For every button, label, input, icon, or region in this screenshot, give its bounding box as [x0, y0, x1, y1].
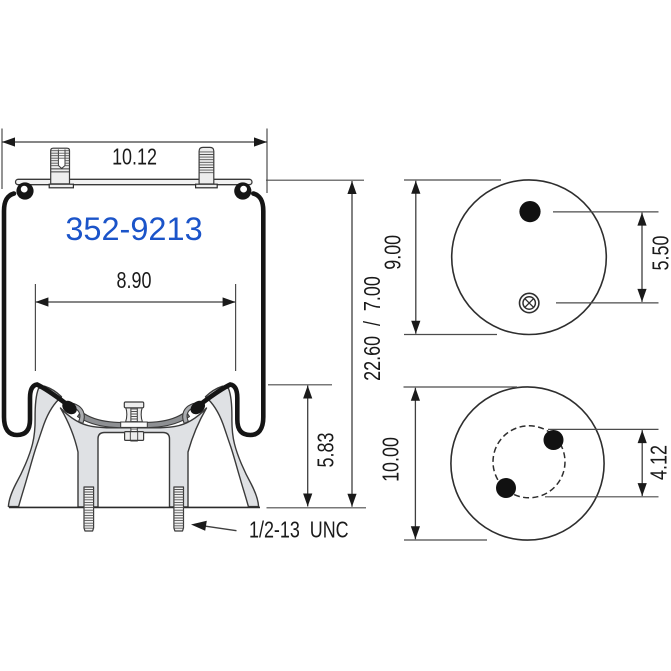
dim 8.90 extension line right	[235, 284, 237, 371]
svg-text:10.00: 10.00	[379, 437, 405, 482]
dim 5.83 extension line top	[268, 384, 332, 386]
piston center fitting cap	[124, 402, 143, 408]
dim 22.60/7.00 arrow bottom	[347, 494, 356, 507]
dim 10.12 text	[112, 144, 157, 170]
rubber clamp bead right	[188, 398, 208, 417]
dim 9.00 line	[415, 181, 417, 334]
piston center fitting flank right	[137, 408, 143, 422]
dim 5.50 arrow bottom	[637, 289, 646, 302]
piston center hex nut	[125, 432, 144, 441]
dim 8.90 line	[35, 301, 235, 303]
svg-text:10.12: 10.12	[112, 144, 157, 170]
dim 5.83 line	[307, 386, 309, 507]
dim 9.00 arrow top	[411, 181, 420, 194]
bottom view bolt circle (dashed)	[493, 426, 565, 498]
plate band rolled end (hook), right	[183, 403, 202, 424]
dim 5.83 text	[314, 433, 340, 468]
bead curl right	[234, 182, 251, 199]
dim 5.50 arrow top	[637, 213, 646, 226]
dim 10.00 arrow bottom	[411, 526, 420, 539]
svg-text:8.90: 8.90	[117, 268, 152, 294]
dim 22.60/7.00 arrow top	[347, 181, 356, 194]
dim 5.50 text	[649, 236, 671, 271]
piston mounting stud left (1/2-13 UNC)	[84, 487, 94, 531]
dim 9.00 arrow bottom	[411, 321, 420, 334]
air inlet combo stud (top left)	[51, 148, 70, 184]
svg-text:4.12: 4.12	[647, 445, 671, 480]
bead plate	[16, 179, 253, 184]
dim 5.50 extension line bottom	[556, 302, 659, 304]
piston center bolt shaft	[131, 407, 137, 442]
dim 5.83 arrow bottom	[303, 494, 312, 507]
dim 22.60/7.00 line	[351, 181, 353, 507]
dim 4.12 arrow bottom	[638, 483, 647, 496]
plate band rolled end (hook), left	[65, 403, 84, 424]
piston center fitting flank left	[126, 408, 132, 422]
dim 10.12 arrow right	[254, 137, 267, 146]
rubber clamp bead left	[60, 398, 80, 417]
dim 10.12 extension line right	[266, 129, 268, 194]
svg-text:352-9213: 352-9213	[65, 211, 202, 247]
dim 9.00 extension line top	[404, 179, 501, 181]
dim 10.00 line	[414, 388, 416, 540]
svg-text:9.00: 9.00	[381, 235, 407, 270]
dim 8.90 extension line left	[34, 284, 36, 371]
dim 8.90 arrow left	[35, 297, 48, 306]
label 1/2-13 UNC	[249, 518, 349, 544]
bottom view stud dot upper right	[544, 430, 564, 450]
dim 5.83 arrow top	[303, 386, 312, 399]
dim 10.12 extension line left	[1, 129, 3, 190]
dim 4.12 extension line bottom	[545, 496, 659, 498]
piston center washer at plate	[121, 422, 148, 427]
piston left skirt	[8, 386, 61, 506]
dim 4.12 line	[641, 430, 643, 496]
svg-text:1/2-13 UNC: 1/2-13 UNC	[249, 518, 349, 544]
piston center pedestal with bolt channel	[61, 408, 207, 507]
bead plate under-tab left	[49, 184, 73, 188]
dim 10.00 text	[379, 437, 405, 482]
bellows rubber left wall and roll lobe	[4, 194, 71, 436]
dim 10.12 line	[2, 141, 267, 143]
piston base line	[9, 506, 260, 508]
dim 10.12 arrow left	[2, 137, 15, 146]
piston top plate (dished, dark gray)	[78, 412, 190, 429]
bottom view stud dot lower left	[496, 478, 516, 498]
dim 10.00 extension line top	[404, 386, 518, 388]
bellows rubber right wall and roll lobe	[197, 194, 263, 436]
threaded mounting stud (top right)	[199, 147, 214, 184]
dim 5.50 line	[641, 213, 643, 302]
leader arrow for 1/2-13 UNC	[191, 521, 237, 531]
dim 22.60/7.00 extension line top	[266, 179, 364, 181]
top view circle	[452, 180, 607, 335]
bottom view circle	[451, 387, 604, 540]
dim 9.00 extension line bottom	[404, 334, 497, 336]
dim 9.00 text	[381, 235, 407, 270]
dim 4.12 extension line top	[548, 428, 659, 430]
svg-text:5.50: 5.50	[649, 236, 671, 271]
dim 4.12 text	[647, 445, 671, 480]
dim 22.60/7.00 text	[360, 276, 386, 381]
bead curl left	[16, 182, 33, 199]
top view stud location dot	[519, 201, 540, 222]
svg-text:5.83: 5.83	[314, 433, 340, 468]
bead plate under-tab right	[196, 184, 218, 188]
dim 8.90 arrow right	[223, 297, 236, 306]
piston right skirt	[206, 386, 259, 506]
svg-text:22.60 / 7.00: 22.60 / 7.00	[360, 276, 386, 381]
dim 22.60/7.00 extension line bottom	[267, 507, 367, 509]
piston mounting stud right (1/2-13 UNC)	[174, 487, 184, 531]
dim 10.00 arrow top	[411, 388, 420, 401]
top view air fitting symbol	[520, 293, 539, 312]
dim 4.12 arrow top	[638, 430, 647, 443]
dim 10.00 extension line bottom	[404, 539, 487, 541]
dim 5.50 extension line top	[553, 211, 659, 213]
dim 8.90 text	[117, 268, 152, 294]
